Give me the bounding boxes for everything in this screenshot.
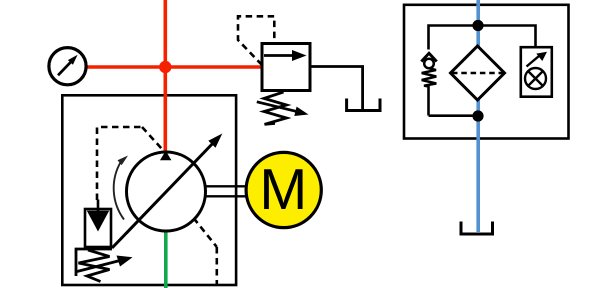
wire: red pressure line vertical (node P): [164, 0, 168, 151]
wire: green drain line: [164, 229, 168, 288]
variable displacement arrow through pump: [112, 134, 222, 249]
wire: bypass bottom line: [429, 114, 479, 117]
electric motor M1: [246, 152, 321, 227]
tank T1 (relief drain): [347, 99, 380, 111]
tank T2 (return): [461, 222, 493, 235]
wire: relief valve outlet to tank: [310, 67, 363, 111]
wire: bypass top line: [429, 26, 536, 116]
pilot line dashed (compensator to pump control): [97, 127, 162, 200]
wire: blue return line: [476, 0, 480, 232]
relief valve RV1 pilot dashed line: [238, 16, 274, 65]
node dot bottom: [472, 110, 483, 121]
node dot top: [472, 20, 483, 31]
filter F1 (diamond): [451, 46, 505, 100]
pressure gauge G1: [49, 48, 86, 85]
compensator valve CV1 box: [85, 200, 111, 248]
wire: red pressure line horizontal: [86, 65, 262, 69]
shaft: pump to motor (double line): [205, 186, 247, 196]
filter enclosure box: [404, 5, 569, 139]
case drain dashed line: [194, 218, 217, 285]
relief valve spring (adjustable): [257, 92, 309, 124]
svg-text:M: M: [259, 158, 307, 222]
clogging indicator I1: [521, 47, 552, 96]
check valve CV2 (bypass): [421, 53, 436, 86]
pump outlet flow triangle: [160, 151, 171, 161]
pump P1 (variable displacement) circle: [127, 152, 206, 231]
compensator spring (adjustable): [76, 249, 133, 282]
rotation direction arc: [114, 156, 128, 220]
pump enclosure box: [62, 95, 236, 285]
relief valve RV1 body: [262, 44, 310, 91]
node junction dot (red): [159, 61, 171, 73]
